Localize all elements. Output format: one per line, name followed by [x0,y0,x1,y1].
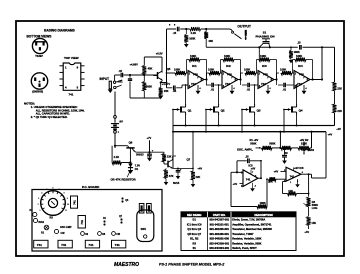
wire dry signal vertical [166,29,168,88]
wire output IC3 [274,79,277,81]
svg-text:Q3: Q3 [257,109,261,113]
pads Q7 [120,218,122,220]
svg-text:6: 6 [53,188,54,190]
svg-text:940-04C004-001: 940-04C004-001 [209,246,229,250]
svg-text:100K: 100K [280,68,286,72]
svg-text:12K: 12K [288,189,293,193]
svg-text:43K: 43K [148,66,153,70]
wire IC5 output [258,177,261,179]
pads Q6 [121,197,123,199]
resistor 500K base return [143,75,145,82]
svg-text:7: 7 [59,189,60,191]
svg-text:INPUT: INPUT [100,77,110,81]
svg-text:741: 741 [297,82,302,86]
wire mix line to jack tip [201,28,230,30]
emitter node Q5 +4.07V [161,78,163,80]
resistor 43K to bus [205,29,207,32]
svg-text:741: 741 [69,92,74,96]
svg-text:500K: 500K [269,141,275,145]
svg-text:Transistor, T1697: Transistor, T1697 [232,232,254,236]
transistor Q6 supply follower [115,145,128,147]
wire drain Q2 [218,85,220,105]
IC 741 vertical package 2 [78,216,85,229]
resistor 2.2K mix [190,27,201,31]
svg-text:741: 741 [80,219,84,224]
resistor 100K feedback IC2 [220,60,222,74]
svg-text:D1: D1 [135,167,139,171]
svg-text:10K: 10K [268,180,273,184]
svg-text:741: 741 [115,243,120,247]
svg-text:741: 741 [225,82,230,86]
input jack J1 [109,81,111,89]
wire drain Q4 [296,85,298,105]
resistor 100K feedback IC3 [256,60,258,74]
capacitor 300/15 filter [149,152,151,153]
capacitor .10 integrator feedback [237,171,243,173]
resistor 43K base bias [142,66,146,75]
svg-text:PS-1 PHASE SHIFTER MODEL MPS-2: PS-1 PHASE SHIFTER MODEL MPS-2 [159,263,225,267]
svg-text:991-041101-001: 991-041101-001 [210,222,230,226]
node 43K 500K [143,74,145,76]
svg-text:991-091206-001: 991-091206-001 [210,232,230,236]
svg-text:991-091203-001: 991-091203-001 [210,227,230,231]
svg-text:741: 741 [61,243,66,247]
svg-text:2. * Q1 THRU Q4 SELECTED.: 2. * Q1 THRU Q4 SELECTED. [31,115,68,119]
pad circle CM [112,232,116,236]
svg-text:15K: 15K [311,221,316,225]
svg-text:.001: .001 [118,79,124,83]
svg-text:925-04C009-001: 925-04C009-001 [209,241,229,245]
wire IC5 pin2 drop to 100K [231,171,237,173]
svg-text:BIAS: BIAS [38,221,44,224]
resistor 10K to IC6 pin3 [269,177,276,181]
svg-text:IC4: IC4 [298,64,303,68]
zener diode D1 7.5V [128,163,133,167]
wiper R2 down [303,150,305,155]
svg-text:.15: .15 [297,40,301,44]
capacitor .33 oscillator [284,147,286,149]
IC 741 package row 4 [112,240,126,248]
svg-text:50/15: 50/15 [173,182,180,185]
transistor Q7 bias follower [167,161,169,168]
potentiometer R2 fet bias [298,146,310,150]
IC 741 vertical package 1 [71,196,78,208]
svg-text:100K: 100K [296,54,302,58]
svg-text:R1 +9V: R1 +9V [250,138,259,142]
svg-text:Q7: Q7 [187,158,191,162]
svg-text:(2N5303): (2N5303) [32,90,43,94]
svg-text:+9V IC6: +9V IC6 [294,166,304,170]
wire +4V to rail [192,132,194,169]
svg-text:2: 2 [38,204,39,206]
FET transistor Q2 [213,106,215,112]
resistor 100K feedback IC4 [292,60,294,74]
wire bus continue [260,46,298,48]
svg-text:+4V: +4V [336,128,341,131]
footswitch SW1 [137,210,154,242]
wire 22K chain from phasing bus [334,47,336,82]
svg-text:.15: .15 [118,69,122,73]
resistor 22K reference lower [192,168,194,171]
svg-text:100K: 100K [260,54,266,58]
capacitor .15 phasing [299,45,301,50]
svg-text:+4V: +4V [304,230,309,234]
svg-text:741: 741 [72,200,76,205]
svg-text:22K: 22K [196,175,201,179]
wire source Q3 to rail1 [254,114,256,125]
capacitor coupling IC1 [167,87,173,89]
node +4V reference [173,167,178,169]
svg-text:22K: 22K [167,155,172,159]
svg-text:Q6: Q6 [129,141,133,145]
svg-text:+8.5V: +8.5V [156,51,163,55]
IC 741 package row 3 [85,240,99,248]
resistor 100K input IC3 [245,71,256,75]
svg-text:+7V: +7V [147,136,152,140]
wire gate Q2 to rail [205,109,208,111]
svg-text:741: 741 [261,82,266,86]
rate knob R3 on PCB [41,191,66,216]
svg-text:4: 4 [41,192,42,195]
FET transistor Q3 [249,106,251,112]
svg-text:22K: 22K [337,86,342,90]
svg-text:PART NO.: PART NO. [213,213,226,217]
wire output IC1 [204,79,207,81]
svg-text:100K: 100K [174,68,180,72]
potentiometer R1 gang A [256,147,262,149]
svg-text:300/15: 300/15 [136,154,144,157]
capacitor .001 base to ground [129,74,131,76]
svg-text:+7V: +7V [193,72,198,76]
resistor 100K LFO out [257,205,267,209]
svg-text:+4V: +4V [233,183,238,186]
svg-text:500K: 500K [250,141,256,145]
svg-text:OUTPUT: OUTPUT [237,24,251,28]
svg-text:100K: 100K [224,54,230,58]
wire jack sleeve to battery [114,92,116,116]
PCB outline [32,190,162,252]
potentiometer R1 gang B [281,146,292,150]
wire output IC2 [238,79,241,81]
svg-text:Transistor, Matched Set, 2N530: Transistor, Matched Set, 2N5303 [232,227,272,231]
wire right bus down to IC6 output [325,132,327,178]
capacitor .15 mix [176,27,178,32]
wire IC5 out to right [260,178,262,179]
resistor 15K rate lower [307,217,311,226]
svg-text:R1, R2: R1, R2 [190,237,199,241]
svg-text:Q5: Q5 [167,67,171,71]
svg-text:100K: 100K [190,54,196,58]
svg-text:SW1: SW1 [141,228,147,231]
wire IC4 output [313,79,323,81]
svg-text:REF DESIG: REF DESIG [187,213,202,217]
wire gate Q3 to rail [241,109,244,111]
svg-text:10: 10 [67,204,69,206]
IC 741 DIP-8 top view [63,63,81,90]
resistor 100K phasing to ground [290,46,292,48]
wire jack sleeve down [114,89,116,92]
svg-text:LOG: LOG [312,206,318,210]
resistor 22K bias upper [163,152,165,153]
svg-text:MAESTRO: MAESTRO [114,262,139,268]
svg-text:47K: 47K [169,174,174,178]
wire jack tip up to cap [114,75,116,81]
wire output IC4 [310,79,313,81]
svg-text:.01: .01 [283,88,287,92]
transistor can T1697 bottom view [32,38,47,53]
resistor 100K input IC2 [209,71,220,75]
capacitor coupling IC2 [206,84,211,86]
wire top mix line [167,28,177,30]
svg-text:+7V: +7V [299,72,304,76]
trim circle R1 [44,225,49,230]
svg-text:+4.68V: +4.68V [130,63,139,67]
svg-text:PHASING ON: PHASING ON [256,35,275,39]
wire drain Q3 [254,85,256,105]
svg-text:DESCRIPTION: DESCRIPTION [254,213,272,217]
svg-text:3: 3 [38,198,39,200]
capacitor .15 input [120,73,122,78]
resistor 100K feedback IC1 [186,60,188,74]
wire source Q4 to rail1 [296,114,298,125]
svg-text:Resistor, Variable, 500K: Resistor, Variable, 500K [232,241,261,245]
svg-text:D1: D1 [193,218,197,222]
resistor 100K input IC1 [175,71,186,75]
svg-text:1: 1 [40,210,41,212]
wire source Q2 to rail1 [218,114,220,125]
output jack J2 [234,34,241,39]
svg-text:741: 741 [88,243,93,247]
svg-text:+4V: +4V [274,171,279,174]
wire gate Q1 to rail [172,109,175,111]
wire source Q1 to rail1 [185,114,187,125]
resistor 22K upper [333,82,337,91]
svg-text:+9V R2: +9V R2 [300,138,309,142]
svg-text:T1697: T1697 [35,54,43,58]
source bias rail [173,125,335,127]
svg-text:500K: 500K [146,85,152,89]
parts table [181,212,296,251]
svg-text:11: 11 [65,210,67,212]
svg-text:741: 741 [290,174,295,178]
transistor Q5 input buffer [157,72,159,79]
svg-text:BASING DIAGRAMS: BASING DIAGRAMS [44,29,75,33]
FET transistor Q4 [291,106,293,112]
svg-text:R3: R3 [193,241,197,245]
resistor 2.2K zener feed [112,161,121,165]
svg-text:9V: 9V [119,120,123,124]
wire R1 junction to rail [279,147,281,149]
node mix junction [185,28,187,30]
svg-text:IC2: IC2 [226,64,231,68]
border frame [16,21,344,256]
svg-text:NOTES:: NOTES: [24,101,35,105]
svg-text:2.2K: 2.2K [114,155,120,159]
wire switch bus [206,46,260,48]
transistor can 2N5303 bottom view [31,73,47,89]
svg-text:7.5V: 7.5V [135,164,141,168]
ground bus input stage [130,97,161,99]
wire +8.5V rail [144,56,162,58]
svg-text:43K: 43K [208,39,213,43]
svg-text:OSC AMP: OSC AMP [60,226,72,229]
capacitor 50/15 reference [177,168,179,170]
resistor 100K to ground at mix [185,29,187,34]
svg-text:2.2K: 2.2K [191,31,197,35]
svg-text:100K: 100K [244,68,250,72]
resistor 22K lower [333,104,337,113]
wire IC6 output [301,173,312,175]
svg-text:IC1 thru IC6: IC1 thru IC6 [187,222,202,226]
svg-text:Q2: Q2 [221,109,225,113]
svg-text:9: 9 [67,198,68,200]
svg-text:P.C. BOARD: P.C. BOARD [82,185,100,189]
svg-text:Q1: Q1 [188,109,192,113]
svg-text:741: 741 [191,82,196,86]
connector snap upper [114,116,117,119]
capacitor coupling IC3 [242,84,247,86]
svg-text:.01: .01 [247,88,251,92]
svg-text:.10: .10 [245,155,249,159]
IC 741 package row 2 [58,240,72,248]
resistor 12K feedback IC6 [308,174,310,196]
svg-text:.01: .01 [211,88,215,92]
capacitor coupling IC4 [278,84,283,86]
svg-text:741: 741 [246,177,251,181]
svg-text:919-04C007-001: 919-04C007-001 [209,218,229,222]
svg-text:100K: 100K [208,68,214,72]
svg-text:5: 5 [46,189,47,191]
svg-text:OR 47K RESISTOR: OR 47K RESISTOR [111,178,136,182]
pad circle C9 [81,232,85,236]
svg-text:8: 8 [64,193,65,195]
svg-text:Q5 thru Q7: Q5 thru Q7 [187,232,201,236]
svg-text:+7V: +7V [227,72,232,76]
potentiometer R3 rate [307,197,311,207]
svg-text:22K: 22K [337,109,342,113]
FET transistor Q1 [180,106,182,112]
trim circle osc amp [54,229,58,233]
svg-text:Switch, Push, SPDT: Switch, Push, SPDT [232,246,257,250]
svg-text:Resistor, Variable, 100K: Resistor, Variable, 100K [232,237,261,241]
svg-text:100K: 100K [294,50,300,54]
wire drain Q1 [185,85,187,105]
svg-text:+7V: +7V [263,72,268,76]
IC 741 package row 1 [34,240,48,248]
resistor 100K input IC4 [281,71,292,75]
svg-text:Amplifier, Operational, SN7274: Amplifier, Operational, SN72741 [232,222,272,226]
svg-text:925-048201-000: 925-048201-000 [210,237,230,241]
svg-text:.33: .33 [284,152,288,155]
wire gate Q4 to rail [283,109,286,111]
svg-text:Q4: Q4 [299,109,303,113]
wire +7V emitter bus [135,151,136,154]
svg-text:IC3: IC3 [262,64,267,68]
svg-text:+4V: +4V [328,134,333,137]
wire battery minus down [114,145,116,147]
svg-text:R3: R3 [50,216,54,220]
resistor 15K emitter load [160,83,162,88]
svg-text:S1: S1 [193,246,197,250]
svg-text:Q1 thru Q4: Q1 thru Q4 [187,227,201,231]
svg-text:+9V: +9V [251,168,256,171]
connector snap lower [114,131,117,134]
gate LFO rail [173,131,326,133]
pads D1 [103,220,105,222]
svg-text:15K: 15K [164,89,169,93]
svg-text:OSC. AMPL.: OSC. AMPL. [237,147,253,151]
node after 2.2K [205,28,207,30]
svg-text:BOTTOM VIEWS: BOTTOM VIEWS [27,34,52,38]
svg-text:.05: .05 [173,89,177,93]
resistor 47K bias lower [164,170,168,179]
trim circle bias [33,218,37,222]
pad circle R8 [98,232,102,236]
svg-text:100K: 100K [189,36,195,40]
svg-text:TOP VIEW: TOP VIEW [64,56,79,60]
battery 9V [111,123,119,125]
svg-text:+4V: +4V [197,166,202,170]
svg-text:IC1: IC1 [192,64,197,68]
svg-text:100K: 100K [260,201,266,205]
svg-text:.15: .15 [173,31,177,35]
svg-text:Diode, Zener, 7.5V, 1N708A: Diode, Zener, 7.5V, 1N708A [232,218,265,222]
svg-text:741: 741 [37,243,42,247]
